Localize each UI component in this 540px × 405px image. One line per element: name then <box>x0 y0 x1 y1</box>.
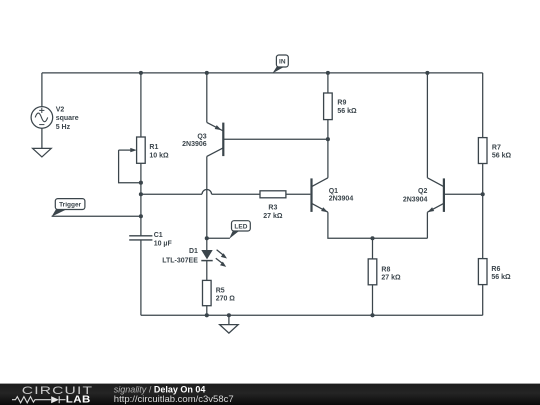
node junction Q2 base / R7 column <box>481 192 485 196</box>
node junction Q1 collector / R9 / Q3 base <box>326 137 330 141</box>
wire Q3 collector down <box>206 156 208 250</box>
D1 light arrow 1 <box>217 250 227 259</box>
svg-text:D1: D1 <box>189 248 198 255</box>
node junction R8 / bottom rail <box>370 313 374 317</box>
svg-text:Q1: Q1 <box>329 188 338 195</box>
wire R6 bottom <box>482 285 484 316</box>
wire LED flag lead <box>207 237 230 239</box>
ground (bottom) <box>220 315 239 333</box>
svg-text:R7: R7 <box>492 145 501 152</box>
svg-text:IN: IN <box>279 59 286 66</box>
svg-text:27 kΩ: 27 kΩ <box>381 275 401 282</box>
wire R5 to bottom rail <box>206 306 208 316</box>
Q1 label <box>329 188 354 202</box>
node junction top rail / R1 column <box>139 71 143 75</box>
R1 wiper arrow <box>119 148 137 152</box>
CircuitLab logo zigzag and diode <box>12 396 66 403</box>
R5 label <box>216 288 236 303</box>
wire top rail <box>42 72 483 74</box>
wire R3 line mid segment <box>212 193 260 195</box>
net flag LED <box>229 221 250 239</box>
svg-text:Q3: Q3 <box>197 133 206 140</box>
resistor R7 body <box>478 138 487 164</box>
node junction LED flag <box>205 236 209 240</box>
net flag IN <box>272 55 288 73</box>
svg-text:LAB: LAB <box>66 394 91 405</box>
wire V2 top lead <box>41 73 43 107</box>
svg-text:56 kΩ: 56 kΩ <box>337 108 357 115</box>
wire D1 to R5 <box>206 261 208 281</box>
svg-text:Q2: Q2 <box>418 188 427 195</box>
net flag Trigger <box>52 199 85 217</box>
svg-text:2N3906: 2N3906 <box>182 141 207 148</box>
svg-text:10 kΩ: 10 kΩ <box>149 153 169 160</box>
node junction ground / bottom rail <box>227 313 231 317</box>
potentiometer R1 body <box>137 137 146 163</box>
transistor Q1 2N3904 <box>312 178 328 212</box>
D1 light arrow 2 <box>216 258 226 267</box>
resistor R3 body <box>260 191 286 198</box>
svg-text:5 Hz: 5 Hz <box>56 124 71 131</box>
svg-text:R5: R5 <box>216 288 225 295</box>
svg-text:56 kΩ: 56 kΩ <box>492 153 512 160</box>
node junction top rail / Q3 emitter <box>205 71 209 75</box>
Q2 label <box>403 188 428 203</box>
svg-text:LTL-307EE: LTL-307EE <box>162 258 198 265</box>
svg-text:R3: R3 <box>268 205 277 212</box>
wire R1 bottom to C1 <box>140 163 142 236</box>
wire Q3 base line <box>223 138 328 140</box>
wire Q1 collector up <box>327 139 329 178</box>
footer bar <box>0 384 540 405</box>
R1 label <box>149 144 169 159</box>
ground (V2) <box>33 148 52 157</box>
node junction R3 line / R1 column <box>139 192 143 196</box>
resistor R5 body <box>203 280 212 305</box>
wire Q2 collector up <box>426 73 428 178</box>
svg-text:R6: R6 <box>491 266 500 273</box>
svg-text:square: square <box>56 115 79 122</box>
wire Q1 emitter down <box>328 212 428 238</box>
wire R3 to Q1 base <box>286 193 311 195</box>
wire hop over LED column <box>202 190 212 195</box>
svg-text:C1: C1 <box>154 232 163 239</box>
svg-text:10 µF: 10 µF <box>154 241 173 248</box>
wire trigger to R1 column <box>52 215 141 217</box>
svg-text:2N3904: 2N3904 <box>329 196 354 203</box>
svg-text:V2: V2 <box>56 106 65 113</box>
wire bottom rail <box>141 314 483 316</box>
R3 label <box>263 205 283 220</box>
R6 label <box>491 266 511 281</box>
node junction top rail / R9 <box>326 71 330 75</box>
wire V2 bottom lead <box>41 128 43 148</box>
resistor R8 body <box>368 259 377 285</box>
svg-text:http://circuitlab.com/c3v58c7: http://circuitlab.com/c3v58c7 <box>114 394 234 405</box>
svg-text:Trigger: Trigger <box>59 202 82 209</box>
wire Q2 base to R7 column <box>444 193 483 195</box>
node junction R5 / bottom rail <box>205 313 209 317</box>
voltage source V2 <box>31 107 53 129</box>
wire R1 top drop <box>140 73 142 137</box>
svg-text:27 kΩ: 27 kΩ <box>263 213 283 220</box>
capacitor C1 <box>129 236 152 240</box>
wire top rail to R7 <box>482 73 484 138</box>
wire R7 bottom to R6 top <box>482 164 484 259</box>
wire R9 top drop <box>327 73 329 93</box>
transistor Q2 2N3904 <box>427 178 444 212</box>
svg-text:270 Ω: 270 Ω <box>216 296 236 303</box>
resistor R6 body <box>478 259 487 285</box>
wire Q3 emitter up <box>206 73 208 123</box>
R9 label <box>337 100 357 115</box>
V2 labels <box>56 106 79 130</box>
wire R9 bottom <box>327 120 329 140</box>
svg-text:signality / Delay On 04: signality / Delay On 04 <box>114 384 206 394</box>
node junction emitter rail / R8 <box>370 236 374 240</box>
wire C1 bottom to bottom rail <box>140 240 142 315</box>
wire R8 top <box>372 238 374 259</box>
wire R8 bottom <box>372 285 374 316</box>
resistor R9 body <box>324 93 333 120</box>
svg-text:LED: LED <box>234 224 247 231</box>
svg-text:R8: R8 <box>381 266 390 273</box>
wire Q2 emitter down <box>426 212 428 238</box>
wire R3 line west segment <box>141 193 202 195</box>
svg-text:56 kΩ: 56 kΩ <box>491 274 511 281</box>
transistor Q3 2N3906 <box>207 122 224 156</box>
svg-text:R9: R9 <box>337 100 346 107</box>
wire R1 wiper loop <box>119 150 141 183</box>
D1 label <box>162 248 198 265</box>
node junction wiper / R1 column <box>139 181 143 185</box>
svg-text:2N3904: 2N3904 <box>403 196 428 203</box>
node junction trigger wire / R1 column <box>139 214 143 218</box>
svg-text:R1: R1 <box>149 144 158 151</box>
C1 label <box>154 232 173 247</box>
LED D1 <box>201 250 212 261</box>
Q3 label <box>182 133 207 148</box>
R7 label <box>492 145 512 160</box>
R8 label <box>381 266 401 281</box>
node junction top rail / Q2 collector <box>425 71 429 75</box>
